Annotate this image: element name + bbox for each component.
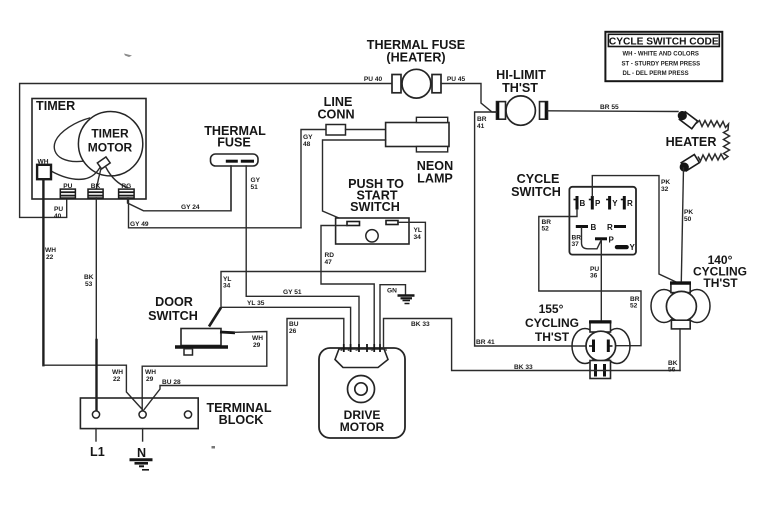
svg-text:B: B — [591, 223, 597, 232]
svg-text:L1: L1 — [90, 445, 105, 459]
svg-text:P: P — [609, 236, 615, 245]
svg-text:48: 48 — [303, 141, 311, 148]
thermal fuse left contact bar — [226, 160, 238, 163]
140 thst body circle — [666, 291, 696, 321]
svg-text:29: 29 — [253, 342, 261, 349]
cycle switch pin P — [589, 196, 593, 210]
svg-text:52: 52 — [630, 303, 638, 310]
wire BK56 (140 thst to BK33) — [679, 329, 681, 371]
svg-text:TH'ST: TH'ST — [502, 81, 538, 95]
wire neon lamp return to push-to-start — [323, 140, 386, 222]
svg-text:BLOCK: BLOCK — [219, 413, 264, 427]
svg-text:BR: BR — [477, 116, 487, 123]
svg-text:TIMER: TIMER — [36, 99, 75, 113]
drive motor pin numbers — [340, 347, 387, 352]
push-to-start switch S1 body — [336, 218, 409, 244]
drive motor pin ticks — [344, 344, 380, 352]
svg-text:34: 34 — [414, 234, 422, 241]
wire PK50 (heater to 140 thst) — [681, 168, 683, 282]
cycle switch contact B bar — [576, 225, 588, 228]
push-to-start left slot — [347, 222, 360, 226]
hi-limit right terminal — [540, 102, 548, 120]
hi-limit left terminal — [497, 102, 506, 120]
thermal fuse (heater) right terminal — [432, 75, 441, 93]
155 thst right wing — [604, 329, 630, 364]
cycle switch code box — [605, 32, 722, 81]
cycle switch internal wire B to P — [582, 228, 602, 249]
wire PU45 (fuse to hi-limit) — [441, 84, 497, 113]
svg-text:FUSE: FUSE — [217, 136, 251, 150]
svg-text:GY 51: GY 51 — [283, 289, 302, 296]
svg-text:CYCLE SWITCH CODE: CYCLE SWITCH CODE — [609, 36, 719, 47]
svg-text:BK 33: BK 33 — [411, 321, 430, 328]
wire L1 stub — [95, 429, 97, 441]
timer internal wire to BK — [97, 169, 102, 189]
svg-text:PU 40: PU 40 — [364, 76, 383, 83]
svg-text:36: 36 — [590, 273, 598, 280]
line connector LC1 — [326, 125, 346, 136]
wire motor pin to GN ground — [380, 285, 406, 344]
svg-text:ST - STURDY PERM PRESS: ST - STURDY PERM PRESS — [622, 61, 701, 67]
terminal block TB1 — [80, 398, 198, 429]
heater element zigzag — [696, 121, 730, 162]
svg-text:PK: PK — [661, 179, 670, 186]
wire BR52 (cycle switch B pin to 155 thst) — [539, 210, 641, 346]
svg-text:PK: PK — [684, 209, 693, 216]
timer terminal PU — [60, 189, 75, 198]
wire GY48 riser (GY49 up to line conn) — [301, 130, 326, 228]
svg-text:BU: BU — [289, 321, 299, 328]
svg-text:155°: 155° — [539, 302, 564, 316]
thermal fuse (heater) F1 circle — [402, 69, 431, 98]
neon lamp top tab — [416, 117, 447, 122]
svg-text:WH: WH — [252, 335, 263, 342]
svg-text:RG: RG — [121, 183, 131, 190]
svg-text:WH: WH — [38, 159, 49, 166]
svg-text:52: 52 — [542, 226, 550, 233]
svg-text:CONN: CONN — [317, 108, 354, 122]
wire line conn to neon lamp — [346, 129, 386, 131]
svg-text:GY 49: GY 49 — [130, 221, 149, 228]
thermal fuse TF1 body — [211, 154, 259, 166]
wire PU36 (cycle switch P contact to 155 thst) — [600, 240, 602, 321]
wire PK32 (cycle switch P pin to 140 thst) — [592, 176, 676, 282]
drive motor hub outer circle — [348, 376, 375, 403]
heater top plug — [676, 109, 698, 129]
ground symbol GN — [398, 296, 415, 304]
thermal fuse right contact bar — [241, 160, 254, 163]
svg-text:PU: PU — [63, 183, 72, 190]
svg-text:N: N — [137, 446, 146, 460]
svg-text:22: 22 — [46, 254, 54, 261]
svg-text:YL 35: YL 35 — [247, 300, 265, 307]
wire YL34 diagonal into door switch — [209, 308, 221, 327]
scan dot — [212, 446, 216, 449]
drive motor hub inner circle — [355, 383, 367, 395]
svg-text:50: 50 — [684, 216, 692, 223]
svg-text:GY: GY — [251, 177, 261, 184]
svg-text:22: 22 — [113, 376, 121, 383]
wire GY49 (timer RG to GY48 riser) — [129, 198, 302, 228]
svg-text:WH: WH — [45, 247, 56, 254]
wire BR41 (hi-limit to 155 thst) — [475, 112, 589, 346]
155 thst inner contact right — [608, 340, 612, 353]
140 thst bottom terminal — [671, 320, 690, 329]
svg-text:32: 32 — [661, 186, 669, 193]
155 thst bottom terminal — [590, 361, 611, 379]
svg-text:(HEATER): (HEATER) — [386, 51, 445, 65]
timer terminal RG — [119, 189, 135, 198]
hi-limit thermostat circle — [506, 96, 535, 125]
timer box — [32, 99, 146, 200]
svg-text:CYCLING: CYCLING — [525, 316, 579, 330]
wire BU28/BU26 (terminal N to drive motor) — [144, 319, 343, 410]
svg-text:TH'ST: TH'ST — [703, 276, 738, 290]
drive motor connector — [335, 349, 388, 368]
thermal fuse (heater) left terminal — [392, 75, 401, 93]
wire GY24 (timer RG to thermal fuse) — [128, 166, 232, 211]
cycle switch pin R — [621, 196, 625, 210]
wire BK53 (timer BK to terminal block L1) — [95, 198, 97, 340]
155 thst top terminal — [589, 321, 612, 332]
wire WH22 (timer WH to terminal block N) — [42, 179, 44, 365]
svg-text:HEATER: HEATER — [666, 135, 717, 149]
timer cam blob — [54, 118, 89, 162]
door switch S2 body — [181, 329, 221, 346]
svg-text:MOTOR: MOTOR — [88, 141, 133, 155]
svg-text:BR 55: BR 55 — [600, 104, 619, 111]
svg-text:B: B — [580, 199, 586, 208]
svg-text:R: R — [627, 199, 633, 208]
svg-text:BK: BK — [91, 183, 101, 190]
wire RD47 (push-to-start left to drive motor) — [321, 226, 374, 349]
155 thst left wing — [572, 329, 598, 364]
140 thst right wing — [684, 290, 710, 323]
wire YL34 (push-to-start right to door switch) — [221, 222, 425, 307]
svg-text:Y: Y — [612, 199, 618, 208]
svg-text:51: 51 — [251, 184, 259, 191]
svg-text:GY 24: GY 24 — [181, 204, 200, 211]
wire GY51 (thermal fuse right pin to drive motor) — [246, 166, 359, 348]
svg-text:PU: PU — [54, 206, 63, 213]
svg-text:BK 33: BK 33 — [514, 364, 533, 371]
push-to-start right slot — [386, 221, 398, 225]
140 thst left wing — [651, 290, 677, 323]
svg-text:RD: RD — [325, 252, 335, 259]
timer terminal WH square — [37, 165, 51, 179]
svg-text:GN: GN — [387, 288, 397, 295]
svg-text:BR 41: BR 41 — [476, 339, 495, 346]
terminal block hole L1 — [92, 411, 99, 418]
timer cam follower diamond — [97, 157, 110, 169]
svg-text:BU 28: BU 28 — [162, 379, 181, 386]
svg-text:WH - WHITE AND COLORS: WH - WHITE AND COLORS — [623, 52, 699, 58]
wire BR55 (hi-limit to heater) — [548, 110, 679, 113]
svg-text:37: 37 — [572, 241, 580, 248]
svg-text:DOOR: DOOR — [155, 295, 193, 309]
cycle switch box — [569, 187, 636, 255]
svg-text:R: R — [607, 223, 613, 232]
svg-text:DL - DEL PERM PRESS: DL - DEL PERM PRESS — [623, 71, 689, 77]
heater bottom plug — [678, 155, 700, 174]
svg-text:YL: YL — [414, 227, 422, 234]
svg-text:TIMER: TIMER — [91, 127, 129, 141]
svg-text:26: 26 — [289, 328, 297, 335]
svg-text:34: 34 — [223, 283, 231, 290]
wire BK33 (motor pin to 155 thst and 140 thst) — [384, 319, 681, 371]
push-to-start button circle — [366, 230, 378, 242]
svg-text:CYCLE: CYCLE — [517, 172, 560, 186]
neon lamp bottom tab — [416, 147, 447, 152]
svg-text:Y: Y — [630, 243, 636, 252]
svg-text:MOTOR: MOTOR — [340, 420, 385, 434]
svg-text:SWITCH: SWITCH — [148, 309, 198, 323]
drive motor M1 body — [319, 348, 405, 438]
svg-text:47: 47 — [325, 259, 333, 266]
svg-text:41: 41 — [477, 123, 485, 130]
svg-text:40: 40 — [54, 213, 62, 220]
cycle switch contact P bar — [595, 237, 607, 240]
svg-text:TH'ST: TH'ST — [535, 330, 570, 344]
cycle switch pin B — [574, 196, 578, 210]
cycle switch contact Y lozenge — [615, 245, 629, 249]
155 thst body circle — [586, 331, 616, 361]
door switch tab — [184, 349, 193, 355]
wire YL35 (door switch to drive motor) — [222, 307, 351, 348]
wire WH29 (door switch to terminal block N) — [220, 331, 235, 335]
svg-text:56: 56 — [668, 367, 676, 374]
timer internal wire to WH — [51, 168, 100, 180]
terminal block hole 3 — [184, 411, 191, 418]
wire N stub — [142, 429, 144, 441]
terminal block hole N — [139, 411, 146, 418]
cycle switch contact R bar — [614, 225, 626, 228]
svg-text:LAMP: LAMP — [417, 172, 453, 186]
wire thermal fuse left pin to GY24 — [230, 166, 232, 211]
scan smudge — [124, 54, 132, 58]
155 thst inner contact left — [589, 340, 594, 353]
neon lamp NE1 body — [386, 123, 449, 147]
cycle switch pin Y — [606, 196, 610, 210]
timer internal wire to RG — [106, 168, 127, 188]
svg-text:P: P — [595, 199, 601, 208]
svg-text:WH: WH — [112, 369, 123, 376]
svg-text:SWITCH: SWITCH — [511, 185, 561, 199]
timer motor circle — [78, 112, 142, 176]
timer terminal BK — [88, 189, 103, 198]
svg-text:SWITCH: SWITCH — [350, 200, 400, 214]
svg-text:29: 29 — [146, 376, 154, 383]
svg-text:BK: BK — [84, 274, 94, 281]
svg-text:53: 53 — [85, 281, 93, 288]
140 thst top terminal — [670, 282, 691, 293]
svg-text:GY: GY — [303, 134, 313, 141]
door switch base bar — [175, 345, 228, 348]
svg-text:HI-LIMIT: HI-LIMIT — [496, 68, 546, 82]
svg-text:PU 45: PU 45 — [447, 76, 466, 83]
svg-text:WH: WH — [145, 369, 156, 376]
wire PU40 outer loop (thermal fuse heater left to timer PU terminal) — [20, 84, 392, 218]
ground symbol at N — [130, 460, 153, 470]
